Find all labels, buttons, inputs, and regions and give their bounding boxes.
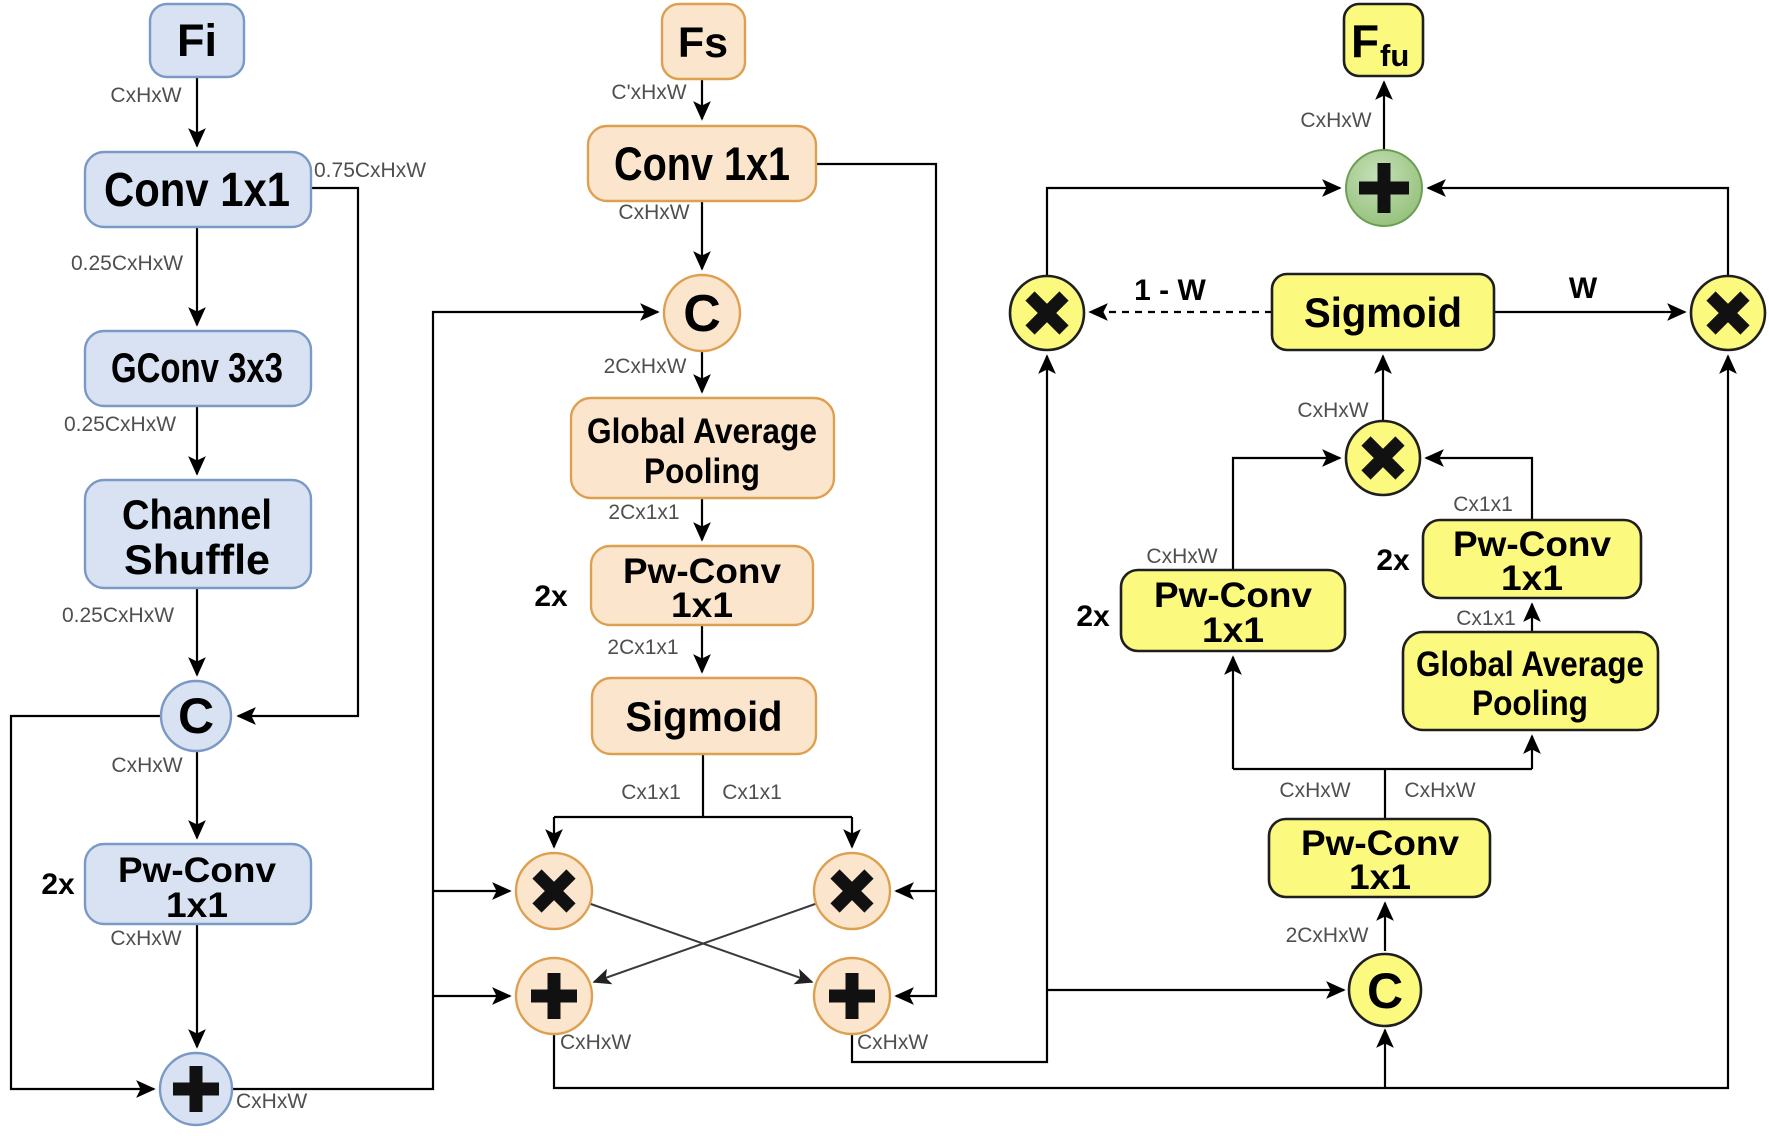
- svg-text:2Cx1x1: 2Cx1x1: [608, 501, 679, 524]
- box Sigmoid mid: [592, 678, 816, 754]
- wire Sigmoid2 dashed 1-W to M3: [1090, 311, 1272, 313]
- svg-text:CxHxW: CxHxW: [1146, 545, 1217, 568]
- wire PwConv5 split bus: [1233, 769, 1532, 819]
- svg-text:Sigmoid: Sigmoid: [1304, 289, 1462, 336]
- wire GAP to PwConv2: [701, 498, 703, 540]
- wire diagonal M2 to A2: [594, 903, 818, 982]
- add circle A1: [160, 1053, 232, 1125]
- wire diagonal M1 to A3: [588, 903, 812, 982]
- svg-text:Channel: Channel: [122, 491, 272, 538]
- svg-text:Pw-Conv: Pw-Conv: [1154, 576, 1313, 615]
- svg-text:0.75CxHxW: 0.75CxHxW: [314, 159, 426, 182]
- wire split to mult M1: [553, 817, 555, 847]
- times symbol M3: [1030, 296, 1064, 330]
- wire 0.75C branch Conv1x1 to concat C1: [238, 188, 358, 716]
- svg-text:CxHxW: CxHxW: [1404, 779, 1475, 802]
- mult circle M2: [814, 853, 890, 929]
- svg-text:C: C: [683, 285, 721, 343]
- wire M4 top to add A4: [1428, 188, 1728, 276]
- svg-text:1x1: 1x1: [1349, 858, 1411, 897]
- svg-text:CxHxW: CxHxW: [1297, 399, 1368, 422]
- svg-text:0.25CxHxW: 0.25CxHxW: [71, 252, 183, 275]
- wire split to mult M2: [851, 817, 853, 847]
- svg-text:CxHxW: CxHxW: [111, 754, 182, 777]
- svg-text:1 - W: 1 - W: [1134, 274, 1206, 307]
- svg-text:1x1: 1x1: [671, 586, 733, 625]
- box Pw-Conv 1x1 right bottom: [1269, 819, 1490, 897]
- svg-text:Global Average: Global Average: [587, 412, 817, 451]
- plus symbol A1: [173, 1066, 219, 1112]
- box Fs: [662, 4, 745, 79]
- add circle A4 green: [1346, 150, 1422, 226]
- box Channel Shuffle: [85, 480, 311, 588]
- times symbol M2: [835, 874, 869, 908]
- concat circle C2: [664, 275, 740, 351]
- wire PwConv2 to Sigmoid1: [701, 625, 703, 672]
- svg-text:2x: 2x: [534, 580, 568, 613]
- plus symbol A2: [531, 973, 577, 1019]
- wire PwConv to add A1: [196, 924, 198, 1047]
- svg-text:W: W: [1569, 272, 1598, 305]
- svg-text:1x1: 1x1: [1202, 611, 1264, 650]
- times symbol M4: [1711, 296, 1745, 330]
- wire branch up to concat C3: [1384, 1030, 1386, 1088]
- box Pw-Conv 1x1 left: [85, 844, 311, 924]
- svg-text:Conv 1x1: Conv 1x1: [614, 137, 790, 190]
- svg-text:1x1: 1x1: [1501, 559, 1563, 598]
- svg-text:CxHxW: CxHxW: [857, 1031, 928, 1054]
- svg-text:Fs: Fs: [678, 19, 728, 67]
- times symbol M5: [1366, 441, 1400, 475]
- svg-text:Shuffle: Shuffle: [124, 536, 270, 583]
- svg-text:2x: 2x: [1076, 600, 1110, 633]
- svg-text:C: C: [1367, 963, 1403, 1019]
- wire Conv1x1-2 to concat C2: [701, 201, 703, 269]
- wire concat C2 to GAP: [701, 351, 703, 392]
- svg-text:2x: 2x: [41, 868, 75, 901]
- wire branch to add A2: [433, 995, 510, 997]
- svg-text:0.25CxHxW: 0.25CxHxW: [64, 413, 176, 436]
- wire A3 output to mult M3: [852, 356, 1047, 1062]
- plus symbol A4: [1359, 163, 1409, 213]
- svg-text:0.25CxHxW: 0.25CxHxW: [62, 604, 174, 627]
- wire split to GAP2: [1531, 736, 1533, 769]
- svg-text:CxHxW: CxHxW: [110, 84, 181, 107]
- add circle A2: [516, 958, 592, 1034]
- wire Conv1x1 to GConv: [196, 227, 198, 325]
- concat circle C3: [1349, 954, 1421, 1026]
- wire concat C1 to PwConv: [196, 751, 198, 838]
- wire Sigmoid1 split bus: [554, 754, 852, 817]
- svg-text:1x1: 1x1: [166, 886, 228, 925]
- box Pw-Conv 1x1 mid: [591, 546, 813, 625]
- svg-text:Pooling: Pooling: [644, 452, 760, 491]
- box Ffu: [1344, 4, 1423, 76]
- box Conv 1x1 left: [85, 152, 311, 227]
- wire Sigmoid2 W to M4: [1494, 311, 1685, 313]
- wire ChannelShuffle to concat C1: [196, 588, 198, 675]
- box Pw-Conv 1x1 right upper: [1423, 520, 1641, 598]
- wire branch to mult M1: [433, 890, 510, 892]
- svg-text:Cx1x1: Cx1x1: [1456, 607, 1516, 630]
- box Fi: [150, 4, 244, 77]
- svg-text:GConv 3x3: GConv 3x3: [111, 344, 283, 391]
- svg-text:C'xHxW: C'xHxW: [611, 81, 686, 104]
- svg-text:Conv 1x1: Conv 1x1: [104, 164, 290, 217]
- wire PwConv4 to M5: [1426, 458, 1532, 520]
- mult circle M3: [1010, 276, 1084, 350]
- svg-text:Pooling: Pooling: [1472, 684, 1588, 723]
- wire Fs to Conv1x1-2: [701, 79, 703, 119]
- svg-text:Cx1x1: Cx1x1: [722, 781, 782, 804]
- wire Conv1x1-2 right branch to M2 and A3: [816, 164, 936, 996]
- wire PwConv3 to M5: [1233, 458, 1340, 570]
- wire M5 to Sigmoid2: [1382, 356, 1384, 421]
- svg-text:Pw-Conv: Pw-Conv: [118, 851, 277, 890]
- mult circle M4: [1691, 276, 1765, 350]
- wire A2 output bottom bus to mult M4 and concat C3: [554, 356, 1728, 1088]
- svg-text:2CxHxW: 2CxHxW: [604, 355, 687, 378]
- svg-text:2Cx1x1: 2Cx1x1: [607, 636, 678, 659]
- svg-text:CxHxW: CxHxW: [618, 201, 689, 224]
- wire M3 top to add A4: [1047, 188, 1340, 276]
- svg-text:Fi: Fi: [177, 15, 217, 66]
- wire concat C3 to PwConv5: [1384, 903, 1386, 951]
- wire branch to concat C3: [1047, 989, 1344, 991]
- svg-text:F: F: [1351, 15, 1379, 67]
- wire split to PwConv3: [1232, 657, 1234, 769]
- svg-text:Cx1x1: Cx1x1: [621, 781, 681, 804]
- wire Fi to Conv1x1: [196, 77, 198, 146]
- svg-text:CxHxW: CxHxW: [236, 1090, 307, 1113]
- box GConv 3x3: [85, 331, 311, 406]
- wire add A1 output to concat C2: [232, 312, 658, 1089]
- svg-text:CxHxW: CxHxW: [560, 1031, 631, 1054]
- svg-text:Cx1x1: Cx1x1: [1453, 493, 1513, 516]
- wire GConv to ChannelShuffle: [196, 406, 198, 474]
- wire A4 to Ffu: [1383, 82, 1385, 150]
- mult circle M5: [1346, 421, 1420, 495]
- svg-text:2CxHxW: 2CxHxW: [1286, 924, 1369, 947]
- concat circle C1: [161, 681, 231, 751]
- wire branch to mult M2: [896, 890, 936, 892]
- svg-text:Global Average: Global Average: [1416, 645, 1644, 684]
- svg-text:C: C: [178, 688, 214, 744]
- add circle A3: [814, 958, 890, 1034]
- box Global Average Pooling right: [1403, 632, 1658, 730]
- plus symbol A3: [829, 973, 875, 1019]
- box Global Average Pooling mid: [571, 398, 834, 498]
- mult circle M1: [516, 853, 592, 929]
- svg-text:CxHxW: CxHxW: [1279, 779, 1350, 802]
- box Sigmoid right: [1272, 274, 1494, 350]
- box Conv 1x1 mid: [588, 126, 816, 201]
- svg-text:Sigmoid: Sigmoid: [626, 693, 783, 740]
- svg-text:CxHxW: CxHxW: [1300, 109, 1371, 132]
- times symbol M1: [537, 874, 571, 908]
- wire bypass C1 left down to add A1: [11, 716, 161, 1089]
- wire GAP2 to PwConv4: [1531, 604, 1533, 632]
- box Pw-Conv 1x1 right left: [1121, 570, 1345, 651]
- svg-text:CxHxW: CxHxW: [110, 927, 181, 950]
- svg-text:fu: fu: [1380, 38, 1409, 73]
- svg-text:2x: 2x: [1376, 544, 1410, 577]
